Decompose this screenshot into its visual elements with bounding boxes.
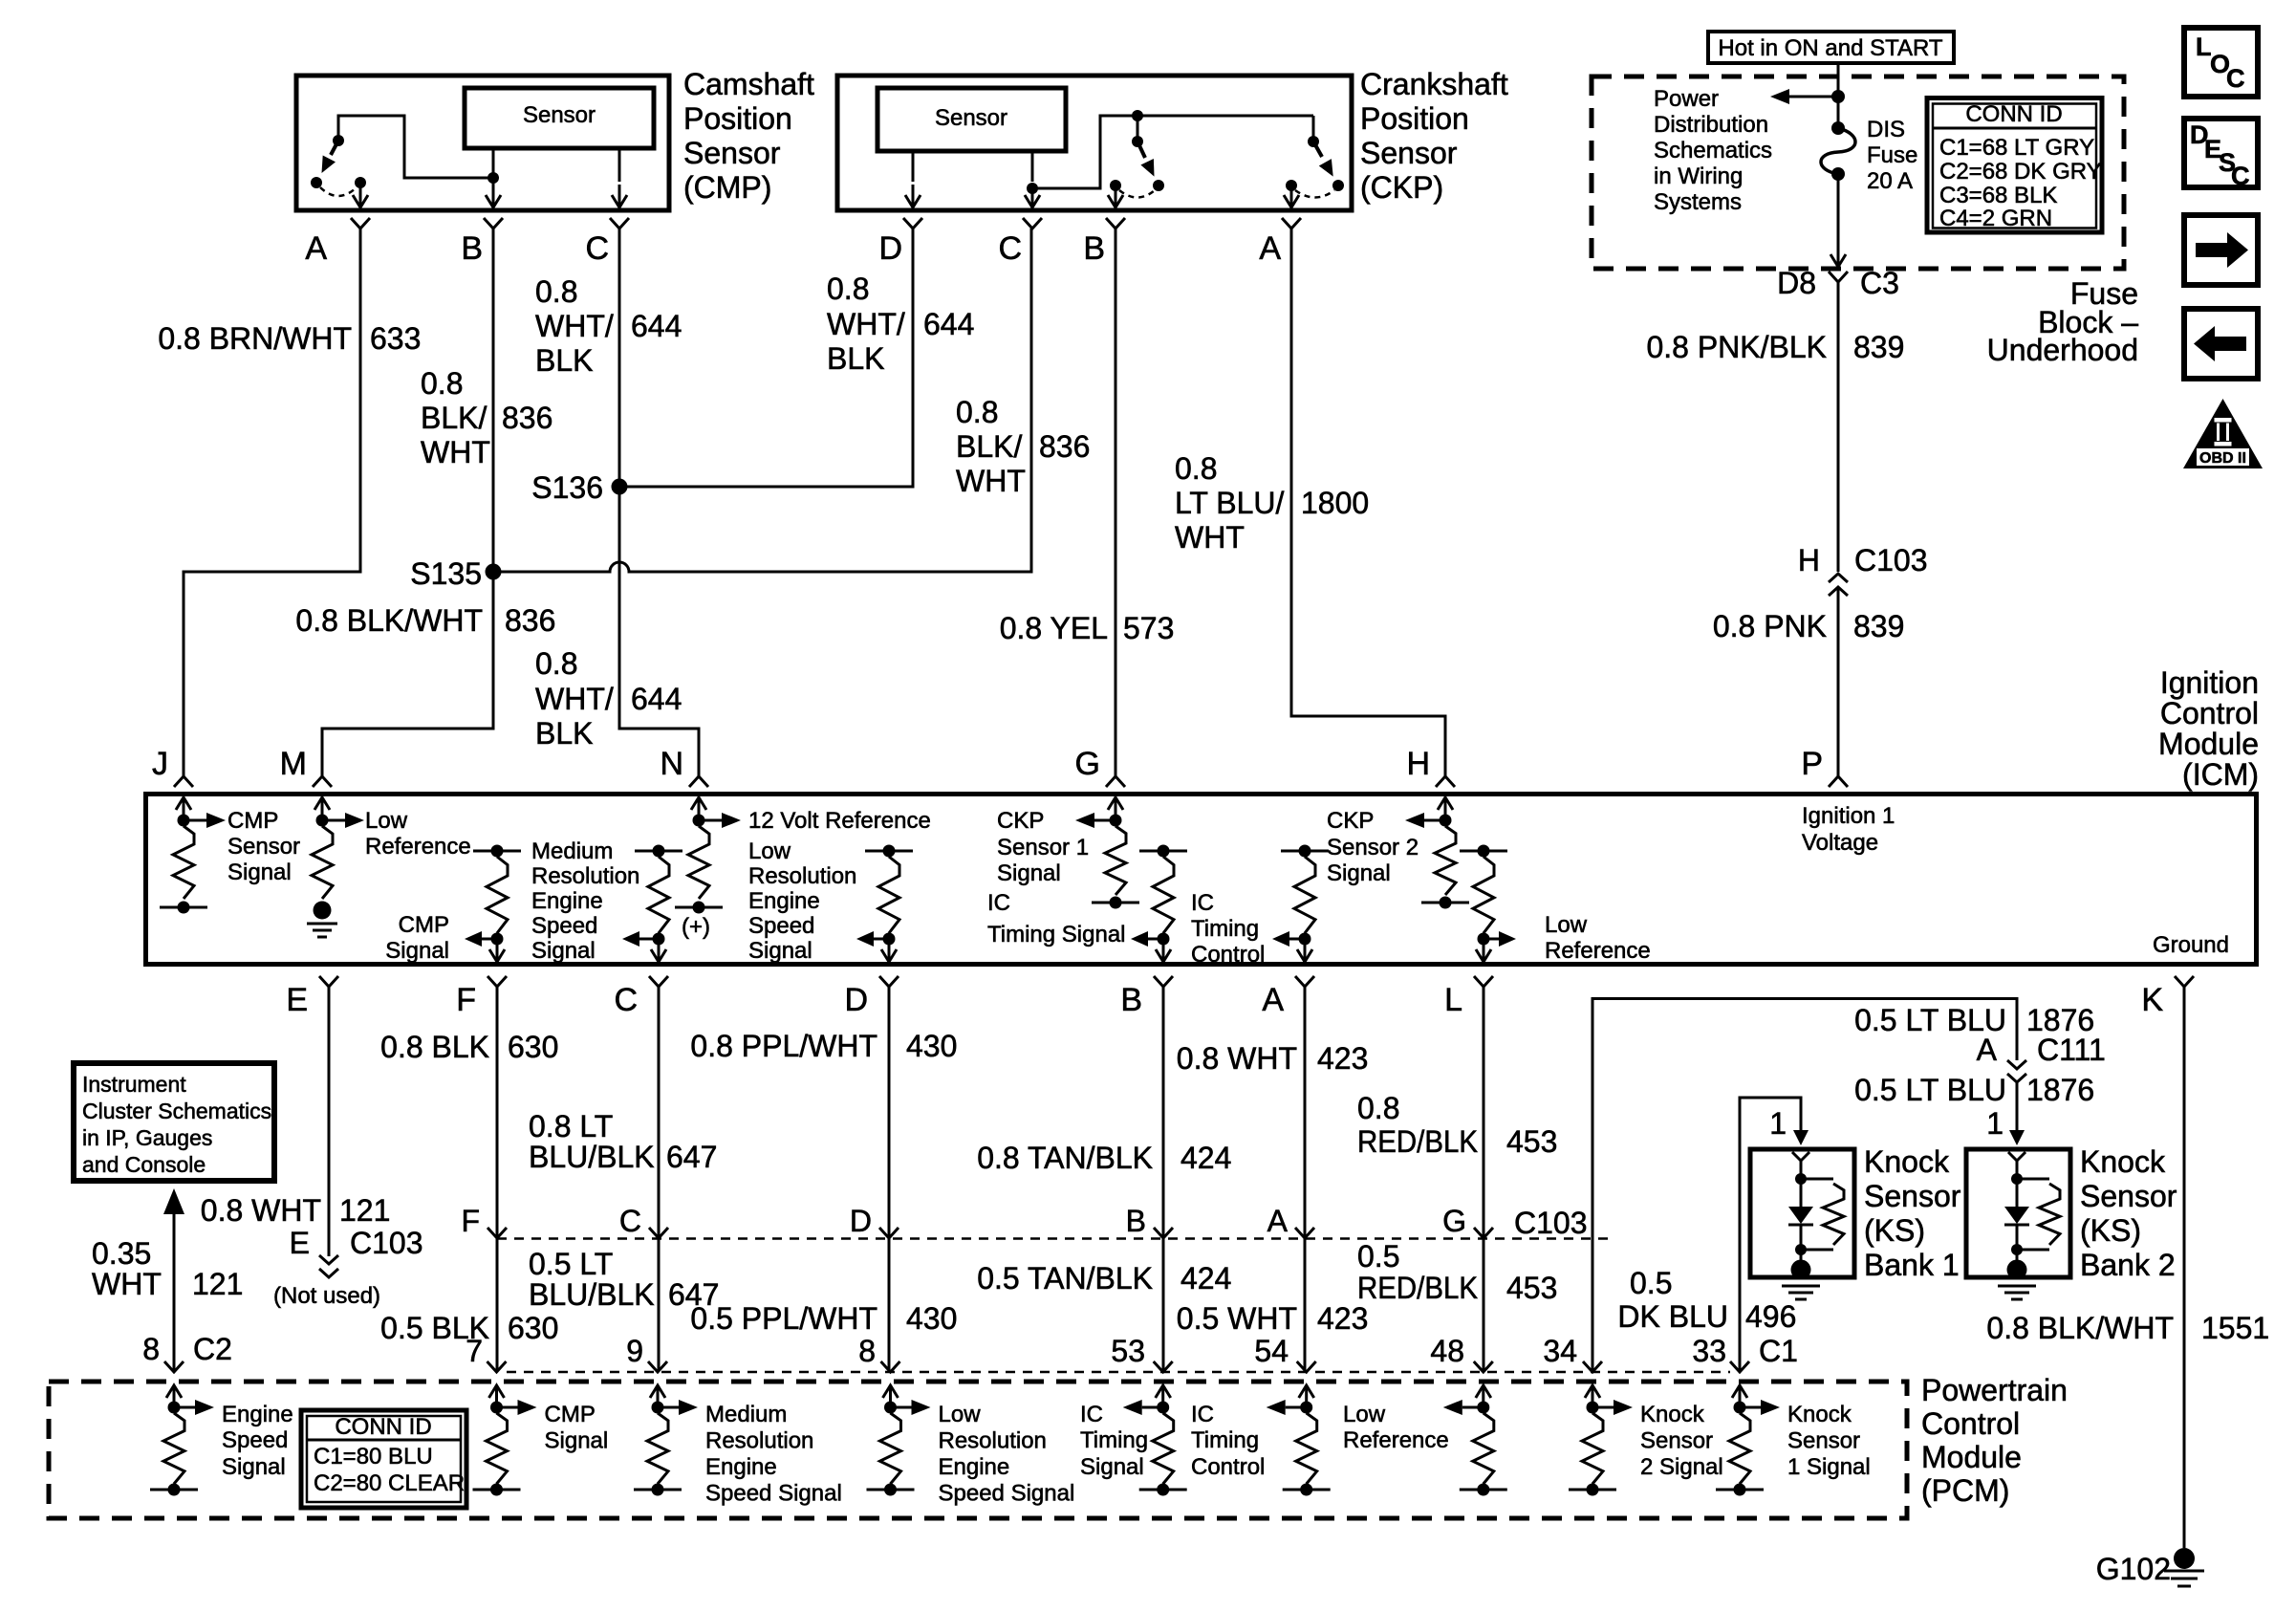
label at PCM pin 33 [1787, 1402, 1871, 1480]
PCM pin 8 connector [164, 1361, 184, 1372]
svg-text:Sensor 2: Sensor 2 [1327, 835, 1419, 860]
label Ignition Control Module (ICM) [2158, 665, 2259, 792]
svg-text:C: C [614, 982, 638, 1018]
svg-text:D8: D8 [1777, 266, 1816, 300]
svg-text:Low: Low [1545, 912, 1588, 938]
svg-text:C3=68 BLK: C3=68 BLK [1939, 183, 2057, 208]
label pin numbers 7 9 8 53 54 48 [466, 1334, 1464, 1368]
svg-text:CONN ID: CONN ID [335, 1414, 431, 1440]
svg-text:Sensor: Sensor [1864, 1179, 1961, 1213]
svg-text:Signal: Signal [385, 938, 449, 964]
splice S135 [410, 556, 501, 591]
svg-text:Reference: Reference [1545, 938, 1651, 964]
svg-text:33: 33 [1692, 1334, 1726, 1368]
svg-text:Hot in ON and START: Hot in ON and START [1718, 35, 1943, 61]
wire ICM to C103 at F [496, 987, 499, 1238]
fuse DIS 20A [1821, 121, 1855, 181]
svg-text:E: E [290, 1226, 310, 1260]
PCM pin 7 resistor [473, 1385, 537, 1496]
PCM pin 48 connector [1474, 1361, 1493, 1372]
inline connector C103 on ignition feed [1798, 543, 1928, 596]
label 0.5 RED/BLK 453 [1357, 1239, 1557, 1305]
svg-text:Sensor: Sensor [1360, 136, 1458, 170]
svg-text:Low: Low [1343, 1402, 1386, 1427]
svg-text:CMP: CMP [545, 1402, 596, 1427]
svg-text:Signal: Signal [227, 860, 292, 885]
ICM CMP Sensor Signal resistor at J [160, 813, 226, 914]
svg-text:in IP, Gauges: in IP, Gauges [82, 1125, 212, 1150]
svg-text:0.5 LT BLU: 0.5 LT BLU [1854, 1073, 2006, 1107]
svg-text:Engine: Engine [748, 888, 820, 914]
svg-text:496: 496 [1745, 1299, 1796, 1334]
svg-text:836: 836 [505, 603, 555, 638]
label Knock Sensor (KS) Bank 2 [2080, 1144, 2177, 1282]
ICM pin H [1406, 746, 1455, 787]
svg-text:0.8 BRN/WHT: 0.8 BRN/WHT [158, 321, 352, 356]
svg-text:1: 1 [1986, 1106, 2004, 1141]
wire 839 PNK/BLK from fuse block to C103 [1837, 282, 1840, 572]
svg-text:Speed: Speed [748, 913, 814, 939]
svg-text:C111: C111 [2037, 1033, 2106, 1067]
svg-text:Signal: Signal [545, 1428, 609, 1454]
label at PCM pin 9 [705, 1402, 842, 1507]
power distribution dashed box [1592, 76, 2124, 269]
PCM pin 9 connector [648, 1361, 667, 1372]
wire 1551 BLK/WHT from ICM K to G102 [2183, 987, 2186, 1548]
ICM pin K connector [2141, 976, 2194, 1018]
label 0.5 TAN/BLK 424 [977, 1261, 1231, 1295]
svg-text:Speed: Speed [531, 913, 597, 939]
svg-text:Camshaft: Camshaft [683, 67, 814, 101]
svg-text:N: N [660, 746, 683, 782]
connector C103 pin C [619, 1204, 668, 1238]
back arrow icon [2184, 309, 2258, 379]
svg-text:Sensor: Sensor [935, 105, 1007, 131]
label Instrument Cluster Schematics [82, 1072, 271, 1177]
svg-text:0.8 LT: 0.8 LT [529, 1109, 613, 1143]
svg-text:(+): (+) [682, 914, 710, 940]
label 0.5 LT BLU 1876 upper [1854, 1003, 2094, 1037]
label 1 at KS bank 1 [1769, 1106, 1787, 1141]
wire 121 WHT from PCM 8 to instrument cluster [163, 1188, 184, 1371]
svg-text:573: 573 [1123, 611, 1174, 645]
connector line C1 dashed [507, 1371, 1730, 1374]
label Medium Resolution Engine Speed Signal [531, 838, 639, 964]
svg-text:839: 839 [1853, 609, 1904, 643]
camshaft position sensor CMP outer box [296, 76, 669, 210]
PCM CONN ID table [301, 1410, 466, 1508]
wire 1800 LT BLU/WHT from CKP A to ICM H [1291, 229, 1445, 776]
PCM pin 7 connector [487, 1361, 507, 1372]
wire C103 to PCM pin 48 [1483, 1238, 1485, 1371]
label Low Resolution Engine Speed Signal at D [748, 838, 856, 964]
svg-text:0.8 PNK: 0.8 PNK [1713, 609, 1827, 643]
label DIS Fuse 20 A [1867, 117, 1917, 194]
svg-text:836: 836 [502, 401, 552, 435]
svg-text:(CKP): (CKP) [1360, 170, 1443, 205]
svg-text:B: B [1120, 982, 1142, 1018]
svg-text:Timing: Timing [1080, 1427, 1148, 1453]
svg-text:839: 839 [1853, 330, 1904, 364]
splice S136 [531, 470, 627, 505]
label 0.8 WHT/BLK 644 lower [535, 646, 682, 751]
svg-text:(CMP): (CMP) [683, 170, 771, 205]
PCM pin 33 connector [1730, 1361, 1749, 1372]
svg-text:CONN ID: CONN ID [1965, 101, 2062, 127]
svg-text:(Not used): (Not used) [273, 1283, 380, 1309]
inline connector C111 [1977, 1033, 2106, 1082]
svg-text:A: A [1262, 982, 1284, 1018]
ICM pin P [1801, 746, 1848, 787]
svg-text:RED/BLK: RED/BLK [1357, 1271, 1478, 1305]
wire 836 from S135 to CKP C with hop over 644 [493, 229, 1031, 572]
svg-text:C103: C103 [1514, 1206, 1588, 1240]
svg-text:Control: Control [2160, 696, 2259, 730]
label 0.5 DK BLU 496 [1617, 1266, 1796, 1334]
ICM pin E connector [286, 976, 338, 1018]
svg-text:Timing: Timing [1191, 1427, 1259, 1453]
svg-text:C: C [585, 230, 609, 267]
svg-text:Module: Module [1921, 1440, 2022, 1474]
CKP pin C internal wire [1025, 151, 1040, 207]
svg-text:DK BLU: DK BLU [1617, 1299, 1728, 1334]
label IC Timing Signal at 53 [1080, 1402, 1148, 1480]
svg-text:IC: IC [1191, 890, 1214, 916]
svg-text:A: A [1977, 1033, 1998, 1067]
svg-text:Engine: Engine [222, 1402, 293, 1427]
label Powertrain Control Module (PCM) [1921, 1373, 2068, 1508]
wire C103 to PCM pin 9 [658, 1238, 661, 1371]
svg-text:20 A: 20 A [1867, 168, 1913, 194]
svg-text:Sensor: Sensor [1640, 1428, 1713, 1454]
svg-text:Signal: Signal [748, 938, 812, 964]
wire 496 from PCM 33 to knock sensor bank 1 [1740, 1098, 1809, 1371]
PCM pin 33 resistor [1716, 1385, 1780, 1496]
label 0.8 BLK 630 [380, 1030, 558, 1064]
label IC Timing Control at A [1191, 890, 1265, 968]
label 0.8 BLK/WHT 836 at CKP C [956, 395, 1090, 498]
CMP pin C internal wire [612, 148, 627, 207]
ICM Low Resolution resistor at D [856, 845, 913, 963]
svg-text:Cluster Schematics: Cluster Schematics [82, 1099, 271, 1123]
svg-text:48: 48 [1430, 1334, 1464, 1368]
ICM CMP Signal resistor at F [465, 845, 521, 963]
KS bank 2 case ground [1998, 1286, 2036, 1299]
svg-text:Knock: Knock [1787, 1402, 1852, 1427]
svg-text:0.5 PPL/WHT: 0.5 PPL/WHT [690, 1301, 877, 1336]
svg-text:Bank 2: Bank 2 [2080, 1248, 2176, 1282]
svg-text:IC: IC [1080, 1402, 1103, 1427]
svg-text:0.5: 0.5 [1630, 1266, 1672, 1300]
label at PCM pin 7 [545, 1402, 609, 1454]
wire ICM to C103 at B [1162, 987, 1165, 1238]
label C103 at G [1514, 1206, 1588, 1240]
svg-text:C1=68 LT GRY: C1=68 LT GRY [1939, 135, 2094, 161]
svg-text:Ignition 1: Ignition 1 [1802, 803, 1895, 829]
label Camshaft Position Sensor (CMP) [683, 67, 814, 205]
fuse block connector D8 C3 [1777, 266, 1899, 300]
svg-text:Reference: Reference [365, 834, 471, 860]
connector C103 pin B [1126, 1204, 1173, 1238]
svg-text:424: 424 [1180, 1141, 1231, 1175]
label Low Reference at M [365, 808, 471, 860]
PCM pin 34 connector [1583, 1361, 1602, 1372]
svg-text:0.5 WHT: 0.5 WHT [1177, 1301, 1297, 1336]
svg-text:WHT: WHT [1175, 520, 1245, 555]
svg-text:Underhood: Underhood [1987, 333, 2138, 367]
svg-text:1: 1 [1769, 1106, 1787, 1141]
wire 836 BLK/WHT from CMP B to ICM M [322, 229, 493, 776]
wire ICM to C103 at C [658, 987, 661, 1238]
svg-text:B: B [461, 230, 483, 267]
label at PCM pin 8 [939, 1402, 1075, 1507]
svg-text:(ICM): (ICM) [2182, 757, 2259, 792]
svg-text:Bank 1: Bank 1 [1864, 1248, 1960, 1282]
svg-text:Low: Low [365, 808, 408, 834]
CKP switch 1 [1110, 116, 1164, 198]
ICM pin H internal arrow [1438, 797, 1453, 820]
svg-text:H: H [1406, 746, 1430, 782]
ICM pin J [152, 746, 193, 787]
svg-text:Systems: Systems [1654, 189, 1742, 215]
label Ground [2153, 932, 2229, 958]
label 0.8 BRN/WHT 633 [158, 321, 421, 356]
ICM pin M [280, 746, 332, 787]
label CMP Signal [385, 912, 449, 964]
svg-text:Knock: Knock [2080, 1144, 2166, 1179]
svg-text:Medium: Medium [705, 1402, 787, 1427]
connector line C103 dashed [497, 1237, 1611, 1240]
svg-text:C3: C3 [1860, 266, 1899, 300]
svg-text:BLK: BLK [535, 716, 593, 751]
wire 839 PNK from C103 to ICM P [1837, 587, 1840, 776]
svg-text:DIS: DIS [1867, 117, 1905, 142]
svg-text:7: 7 [466, 1334, 483, 1368]
svg-text:F: F [456, 982, 476, 1018]
svg-text:C103: C103 [1854, 543, 1928, 577]
ICM pin N [660, 746, 708, 787]
label 0.5 LT BLU/BLK 647 [529, 1247, 719, 1312]
svg-text:53: 53 [1111, 1334, 1145, 1368]
svg-text:0.35: 0.35 [92, 1236, 151, 1271]
svg-text:Sensor: Sensor [227, 834, 300, 860]
svg-text:WHT: WHT [421, 435, 490, 469]
label at PCM pin 34 [1640, 1402, 1723, 1480]
label Crankshaft Position Sensor (CKP) [1360, 67, 1508, 205]
ICM CKP Sensor 2 Signal resistor at H [1405, 813, 1469, 909]
svg-text:8: 8 [858, 1334, 876, 1368]
CKP pin D internal wire [905, 151, 921, 207]
svg-text:Powertrain: Powertrain [1921, 1373, 2068, 1407]
svg-text:L: L [1444, 982, 1462, 1018]
ICM pin D connector [844, 976, 899, 1018]
svg-text:Sensor: Sensor [2080, 1179, 2177, 1213]
svg-text:0.8: 0.8 [827, 272, 869, 306]
svg-text:C2=68 DK GRY: C2=68 DK GRY [1939, 159, 2102, 185]
svg-text:Sensor: Sensor [1787, 1428, 1860, 1454]
label Power Distribution Schematics in Wiring Systems [1654, 86, 1772, 215]
wire 644 from S136 to CKP D [619, 229, 913, 487]
PCM pin 8 resistor [150, 1385, 214, 1496]
connector C103 pin F [461, 1204, 507, 1238]
svg-text:2 Signal: 2 Signal [1640, 1454, 1723, 1480]
fuse block CONN ID table [1927, 98, 2102, 233]
svg-text:Signal: Signal [222, 1454, 286, 1480]
label CKP Sensor 2 Signal [1327, 808, 1419, 886]
label E C103 [290, 1226, 423, 1260]
CMP reluctor switch [311, 116, 493, 196]
svg-text:Instrument: Instrument [82, 1072, 186, 1097]
powertrain control module PCM dashed box [49, 1382, 1907, 1518]
svg-text:A: A [1259, 230, 1281, 267]
label 0.5 BLK 630 [380, 1311, 558, 1345]
svg-text:WHT/: WHT/ [827, 307, 905, 341]
CKP pin B internal wire [1108, 185, 1123, 207]
svg-text:Resolution: Resolution [705, 1428, 813, 1454]
DESC icon [2184, 119, 2258, 190]
svg-text:P: P [1801, 746, 1823, 782]
svg-text:Ignition: Ignition [2160, 665, 2259, 700]
svg-text:E: E [286, 982, 308, 1018]
label IC Timing Control at 54 [1191, 1402, 1265, 1480]
label 0.5 LT BLU 1876 lower [1854, 1073, 2094, 1107]
PCM pin 48 resistor [1443, 1385, 1507, 1496]
svg-text:A: A [305, 230, 327, 267]
svg-text:(PCM): (PCM) [1921, 1473, 2009, 1508]
CKP inner sensor box [877, 88, 1066, 151]
svg-text:Distribution: Distribution [1654, 112, 1768, 138]
svg-text:BLU/BLK: BLU/BLK [529, 1140, 655, 1174]
svg-text:Crankshaft: Crankshaft [1360, 67, 1508, 101]
wire ICM to C103 at A [1304, 987, 1307, 1238]
svg-text:0.8: 0.8 [421, 366, 463, 401]
svg-text:453: 453 [1506, 1271, 1557, 1305]
label Knock Sensor (KS) Bank 1 [1864, 1144, 1961, 1282]
svg-text:Engine: Engine [705, 1454, 777, 1480]
svg-text:424: 424 [1180, 1261, 1231, 1295]
ICM IC Timing Control resistor at A [1272, 845, 1329, 963]
svg-text:G102: G102 [2096, 1552, 2171, 1586]
svg-text:0.8 BLK/WHT: 0.8 BLK/WHT [1986, 1311, 2174, 1345]
svg-text:A: A [1267, 1204, 1289, 1238]
svg-text:0.8: 0.8 [535, 274, 577, 309]
svg-text:Speed: Speed [222, 1427, 288, 1453]
svg-text:WHT: WHT [92, 1267, 162, 1301]
wire E not used [328, 987, 331, 1256]
svg-text:K: K [2141, 982, 2163, 1018]
ICM pin G internal arrow [1108, 797, 1123, 820]
CMP pin B internal wire [486, 148, 501, 207]
PCM pin 8 connector [881, 1361, 900, 1372]
ICM pin J internal arrow [176, 797, 191, 820]
svg-text:CMP: CMP [399, 912, 449, 938]
svg-text:Signal: Signal [1327, 860, 1391, 886]
PCM pin 9 resistor [634, 1385, 698, 1496]
svg-text:C: C [2231, 162, 2250, 190]
svg-text:and Console: and Console [82, 1152, 206, 1177]
svg-text:Timing: Timing [1191, 916, 1259, 942]
svg-text:D: D [844, 982, 868, 1018]
svg-text:0.5 LT: 0.5 LT [529, 1247, 613, 1281]
PCM pin 54 resistor [1267, 1385, 1331, 1496]
CKP pin A internal wire [1284, 185, 1299, 207]
svg-text:0.8 BLK/WHT: 0.8 BLK/WHT [295, 603, 483, 638]
svg-text:644: 644 [631, 309, 682, 343]
svg-text:Control: Control [1921, 1406, 2020, 1441]
label Low Reference at L [1545, 912, 1651, 964]
ICM pin M internal arrow [314, 797, 330, 820]
svg-text:BLK: BLK [827, 341, 884, 376]
CKP pin D [878, 218, 922, 267]
svg-text:633: 633 [370, 321, 421, 356]
label (Not used) [273, 1283, 380, 1309]
CMP inner sensor box [465, 88, 654, 148]
KS bank 1 internal circuit [1788, 1152, 1844, 1280]
label 0.8 TAN/BLK 424 [977, 1141, 1231, 1175]
Hot in ON and START box [1708, 32, 1954, 63]
wire C103 to PCM pin 8 [888, 1238, 891, 1371]
label 0.8 RED/BLK 453 [1357, 1091, 1557, 1159]
ICM CKP Sensor 1 Signal resistor at G [1075, 813, 1139, 909]
svg-text:0.5 TAN/BLK: 0.5 TAN/BLK [977, 1261, 1153, 1295]
svg-text:Low: Low [939, 1402, 982, 1427]
PCM pin 8 resistor [867, 1385, 931, 1496]
label 0.8 PPL/WHT 430 [690, 1029, 957, 1063]
svg-text:12 Volt Reference: 12 Volt Reference [748, 808, 931, 834]
svg-text:CMP: CMP [227, 808, 278, 834]
wire 1876 LT BLU from PCM 34 to knock sensor bank 2 [1592, 999, 2017, 1372]
svg-text:423: 423 [1317, 1041, 1368, 1076]
ignition control module ICM box [146, 795, 2257, 965]
PCM pin 53 resistor [1123, 1385, 1187, 1496]
ICM pin G [1075, 746, 1125, 787]
svg-text:Control: Control [1191, 1454, 1265, 1480]
svg-text:Engine: Engine [939, 1454, 1010, 1480]
wire 1876 from C111 to KS bank 2 [2009, 1082, 2025, 1145]
svg-text:H: H [1798, 543, 1820, 577]
svg-text:Voltage: Voltage [1802, 830, 1878, 856]
svg-text:RED/BLK: RED/BLK [1357, 1124, 1478, 1159]
crankshaft position sensor CKP outer box [837, 76, 1352, 210]
PCM pin 53 connector [1154, 1361, 1173, 1372]
label 0.8 WHT/BLK 644 at CKP D [827, 272, 974, 376]
label 0.35 WHT 121 [92, 1236, 243, 1301]
svg-text:0.8 TAN/BLK: 0.8 TAN/BLK [977, 1141, 1153, 1175]
svg-text:Signal: Signal [997, 860, 1061, 886]
svg-text:1551: 1551 [2201, 1311, 2269, 1345]
svg-text:0.8: 0.8 [1175, 451, 1217, 486]
ICM pin F connector [456, 976, 507, 1018]
label 12 Volt Reference [748, 808, 931, 834]
label 0.8 YEL 573 [1000, 611, 1175, 645]
ICM IC Timing Signal resistor at B [1131, 845, 1187, 963]
wire C103 to PCM pin 53 [1162, 1238, 1165, 1371]
PCM pin 34 resistor [1569, 1385, 1633, 1496]
svg-text:CKP: CKP [997, 808, 1044, 834]
label 0.8 BLK/WHT 1551 [1986, 1311, 2269, 1345]
KS bank 1 case ground [1782, 1286, 1820, 1299]
svg-text:0.8: 0.8 [956, 395, 998, 429]
svg-text:LT BLU/: LT BLU/ [1175, 486, 1285, 520]
svg-text:Control: Control [1191, 942, 1265, 968]
svg-text:Resolution: Resolution [531, 863, 639, 889]
label 0.8 WHT 121 [201, 1193, 391, 1228]
svg-text:Sensor: Sensor [683, 136, 781, 170]
label 0.5 WHT 423 [1177, 1301, 1369, 1336]
ICM Low Reference resistor at L [1460, 845, 1516, 963]
svg-text:J: J [152, 746, 168, 782]
wire fuse to fuse block connector [1830, 174, 1846, 267]
